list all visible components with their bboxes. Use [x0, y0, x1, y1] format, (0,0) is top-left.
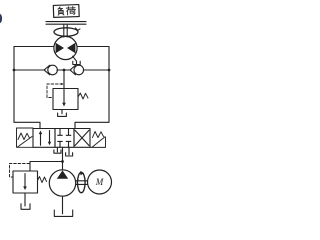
motor case drain diagonal	[73, 56, 77, 61]
pump P1 (circle with up triangle)	[49, 170, 75, 196]
svg-text:M: M	[95, 177, 104, 187]
junction dot right rail	[108, 69, 111, 72]
wire: A-port run (left rail to valve)	[14, 122, 40, 128]
rotation ellipse on shaft	[78, 172, 86, 192]
wire: check-valve row left	[14, 69, 45, 71]
directional valve body: left position box	[33, 129, 55, 148]
junction dot P line	[61, 160, 64, 163]
left cap spring	[18, 133, 30, 140]
wire: right check valve to right rail	[83, 69, 109, 71]
tank symbol at motor drain	[73, 61, 80, 64]
pump suction line	[62, 196, 64, 214]
junction dot mid	[63, 69, 66, 72]
tank symbol under relief valve	[21, 204, 30, 210]
tank symbol T2	[66, 153, 73, 156]
left box arrows (parallel)	[40, 133, 42, 146]
junction dot left rail	[13, 69, 16, 72]
spring of brake valve	[78, 93, 88, 99]
wire: B-port run (right rail to valve)	[75, 122, 109, 128]
hydraulic motor U1 (bidirectional)	[54, 36, 77, 59]
directional valve body: center position box (closed)	[55, 129, 74, 148]
shaft pump to motor (double line)	[76, 181, 88, 185]
check valve V1 (left)	[44, 65, 50, 75]
electric motor M1	[88, 170, 112, 194]
right cap spring	[93, 132, 104, 138]
arrow inside relief valve	[24, 174, 26, 189]
tank symbol T1	[54, 150, 61, 153]
directional valve DV1: left solenoid cap	[17, 128, 34, 147]
right cap solenoid diagonal	[92, 137, 105, 147]
wire: motor right port to right rail	[77, 46, 109, 48]
wire: between check valves	[57, 69, 71, 71]
directional valve body: right position box (crossed)	[74, 129, 90, 148]
partial figure-label character at left edge	[0, 14, 2, 24]
arrow inside brake valve	[63, 90, 65, 105]
shaft (double line) from platform to motor	[64, 24, 67, 37]
relief valve drain to tank	[24, 193, 26, 206]
valve tank port T1	[56, 147, 58, 152]
tank symbol under brake valve	[58, 113, 67, 116]
wire: left vertical rail	[13, 47, 15, 123]
right cap edges	[90, 137, 106, 147]
wire: mid junction down to brake valve	[63, 70, 65, 89]
wire: right vertical rail	[108, 47, 110, 123]
platform double line under load	[46, 22, 86, 25]
brake (relief) valve B1 box	[53, 89, 78, 110]
pilot dashed line of relief valve	[10, 164, 30, 178]
tank symbol under pump	[54, 210, 72, 216]
wire: P port down to pump	[62, 147, 64, 169]
text 负荷 (drawn strokes)	[58, 6, 76, 15]
left cap solenoid diagonal	[18, 137, 33, 148]
spring of relief valve	[38, 177, 47, 183]
load box (负荷)	[53, 5, 79, 18]
relief valve RV1 box	[13, 171, 38, 193]
pilot dashed line of brake valve	[47, 84, 63, 98]
valve tank port T2	[68, 147, 70, 155]
wire: branch to relief valve	[30, 162, 63, 172]
brake valve outlet to tank	[61, 110, 63, 114]
wire: motor left port to left rail	[14, 46, 54, 48]
check valve V2 (right)	[70, 65, 76, 75]
rotation-direction ellipse on shaft	[54, 28, 78, 36]
